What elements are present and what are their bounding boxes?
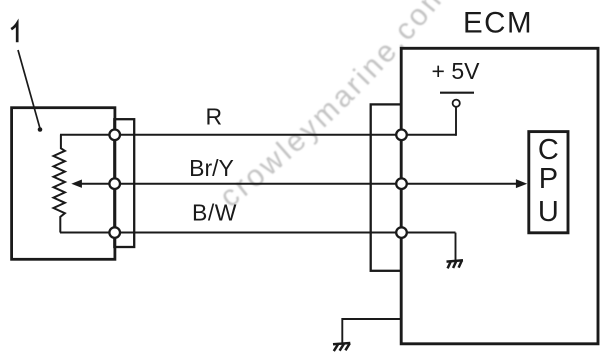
svg-text:R: R — [205, 104, 222, 130]
svg-text:+ 5V: + 5V — [432, 58, 481, 84]
svg-text:B/W: B/W — [192, 200, 237, 226]
svg-text:P: P — [539, 163, 558, 195]
svg-text:C: C — [538, 134, 559, 166]
svg-text:U: U — [538, 196, 559, 228]
svg-text:ECM: ECM — [463, 6, 533, 39]
svg-text:Br/Y: Br/Y — [189, 155, 234, 181]
